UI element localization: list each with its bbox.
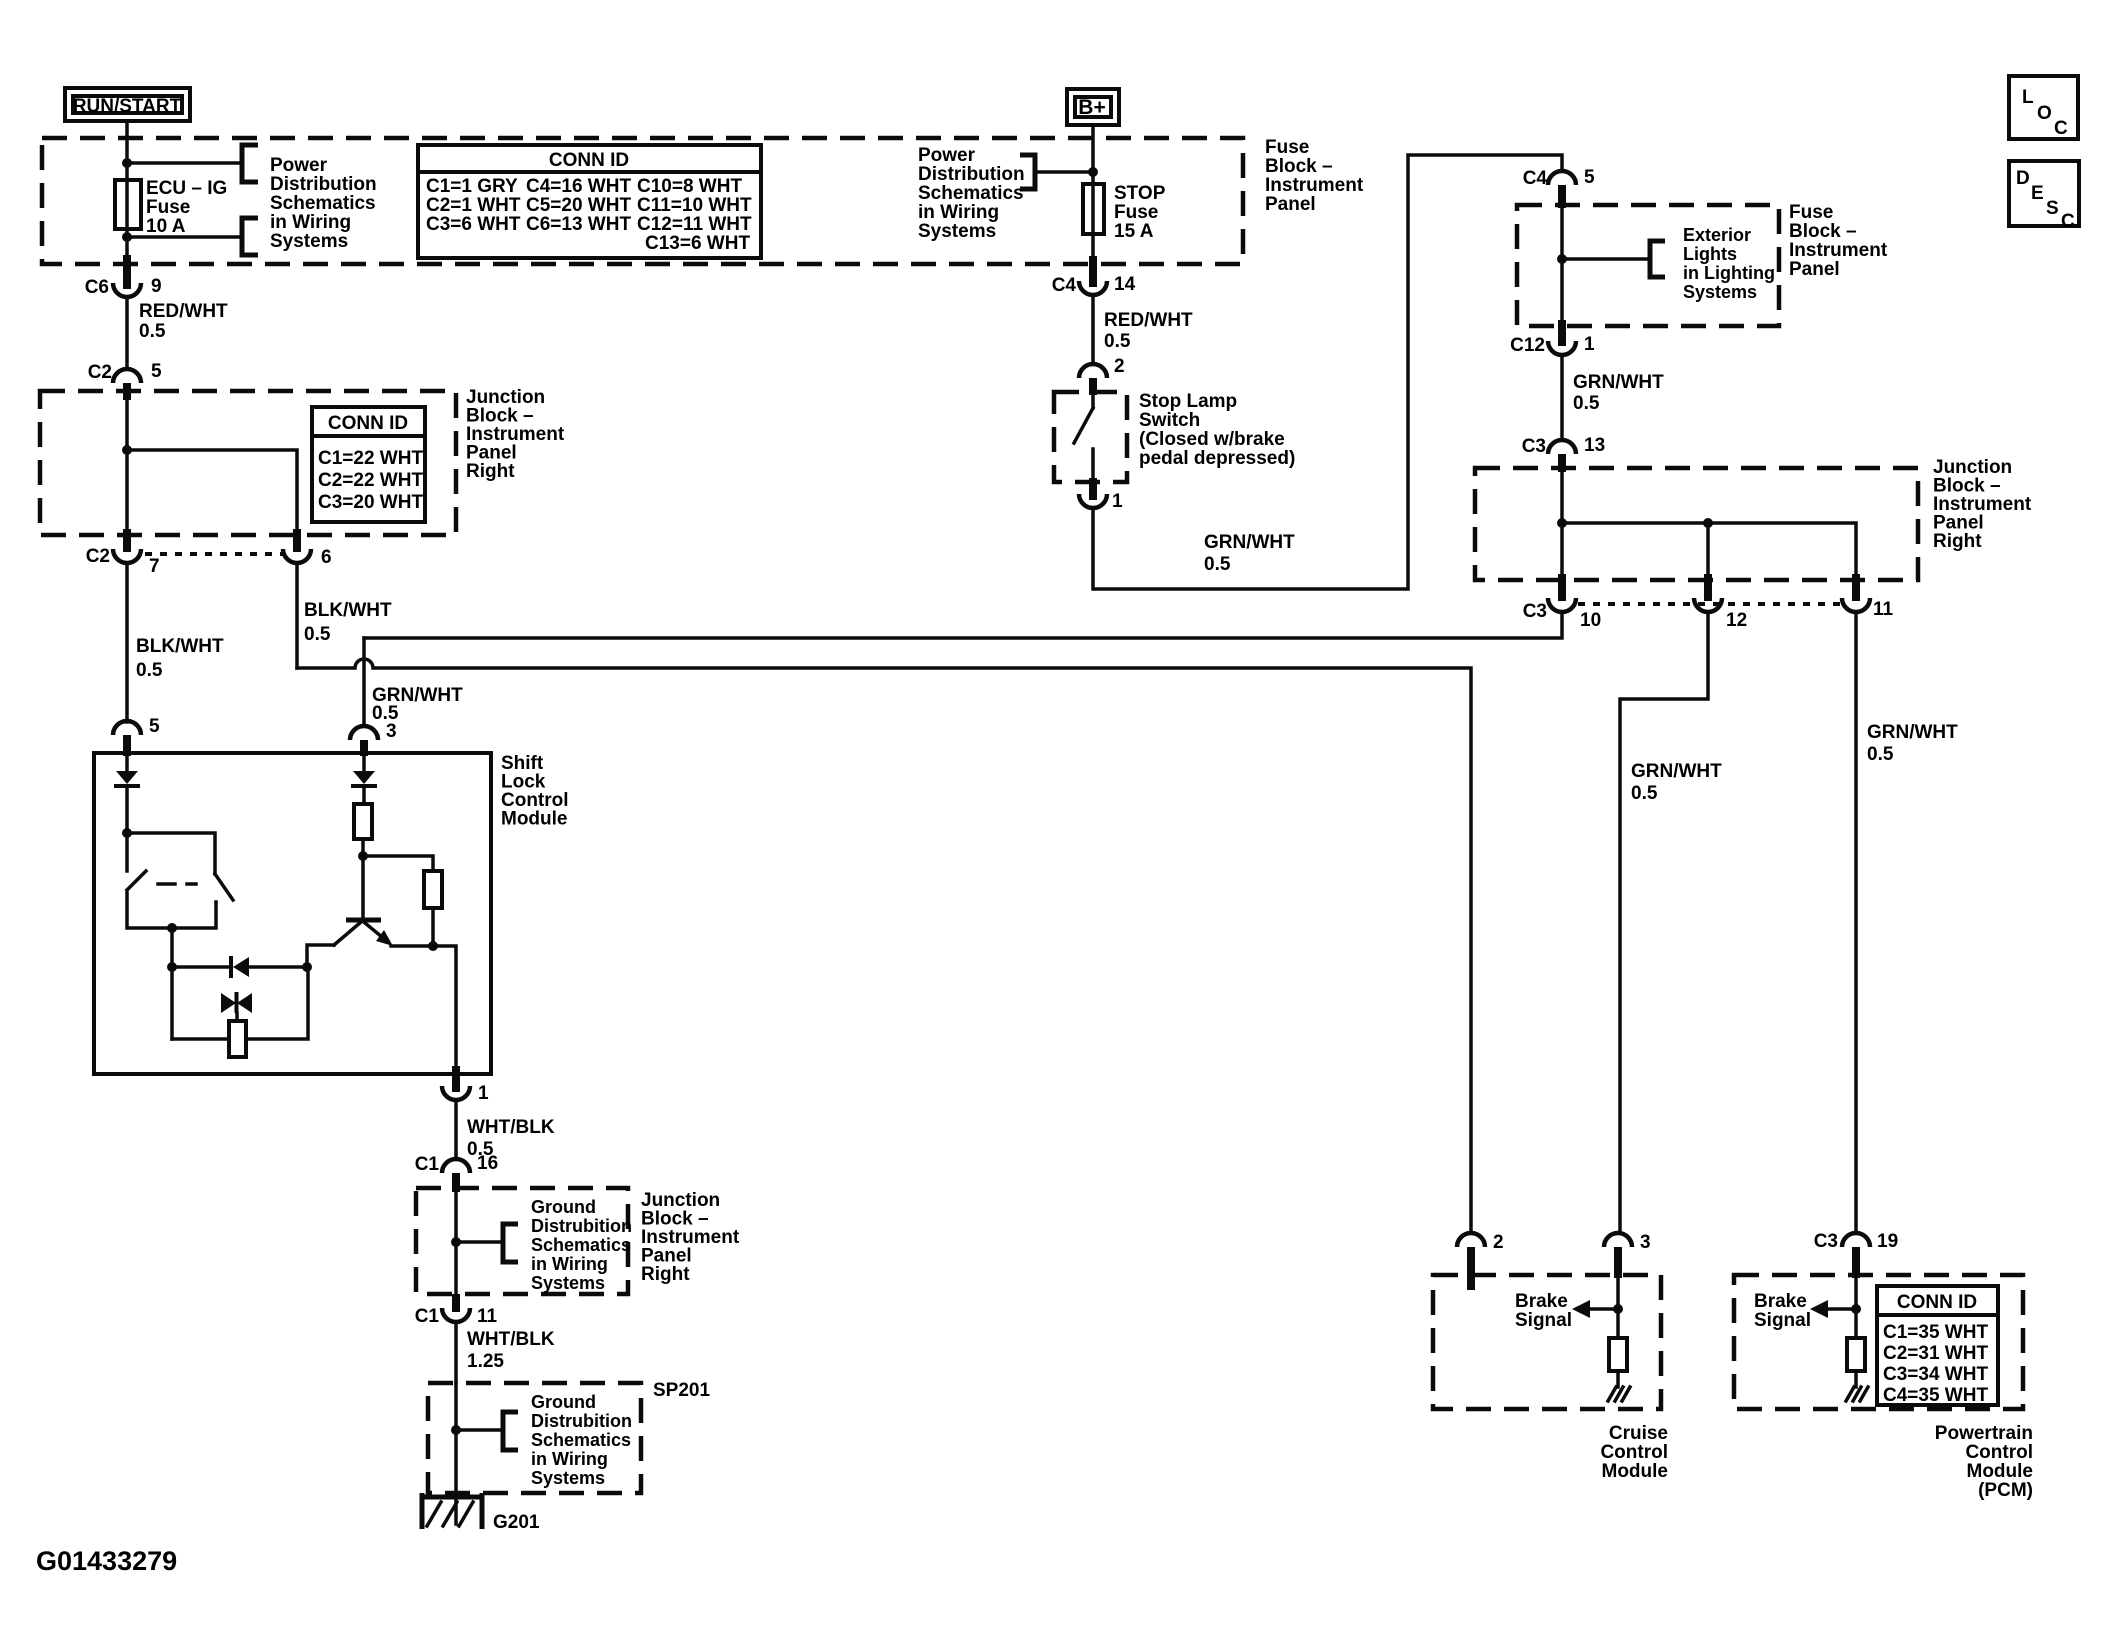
node B+ tap — [1088, 167, 1098, 177]
switch linkage dashes — [158, 882, 196, 886]
wire loop bottom — [172, 967, 308, 1039]
solenoid symbol (butterfly) — [221, 993, 236, 1013]
CONN ID table (junction block) — [312, 407, 425, 522]
svg-text:S: S — [2046, 198, 2059, 219]
svg-text:3: 3 — [386, 721, 397, 742]
wire tap bottom — [127, 235, 240, 239]
fuse block instrument panel right (dashed box) — [1517, 205, 1779, 326]
wire pin19 inside PCM — [1854, 1278, 1858, 1338]
svg-text:2: 2 — [1114, 356, 1125, 377]
wire inside ground box 1 — [454, 1192, 458, 1294]
svg-text:2: 2 — [1493, 1232, 1504, 1253]
svg-text:CONN ID: CONN ID — [549, 150, 629, 171]
connector pin C6-9 — [123, 255, 131, 289]
node A — [358, 851, 368, 861]
connector C1-16 — [442, 1159, 470, 1173]
wire R2 to collector rail — [431, 908, 435, 946]
wire branch pin 12 — [1706, 523, 1710, 580]
svg-text:C10=8 WHTC11=10 WHTC12=11 WHTC: C10=8 WHTC11=10 WHTC12=11 WHTC13=6 WHT — [637, 176, 752, 254]
bracket power distribution top — [242, 145, 258, 182]
connector C3-19 (PCM) — [1842, 1233, 1870, 1247]
node brake signal tap (PCM) — [1851, 1304, 1861, 1314]
wire inside fuse block right — [1560, 208, 1564, 326]
CONN ID table (fuse block) — [418, 145, 761, 258]
node ground tap 1 — [451, 1237, 461, 1247]
wire to resistor R1 — [362, 788, 366, 804]
svg-text:1: 1 — [1584, 334, 1595, 355]
powertrain control module (dashed box) — [1734, 1275, 2023, 1409]
connector pin 3 (cruise) — [1604, 1233, 1632, 1247]
svg-text:C1=22 WHTC2=22 WHTC3=20 WHT: C1=22 WHTC2=22 WHTC3=20 WHT — [318, 448, 423, 513]
wire tap top — [127, 161, 240, 165]
wire branch across — [1562, 523, 1856, 580]
svg-text:BrakeSignal: BrakeSignal — [1515, 1291, 1572, 1331]
wire inside junction block right — [1560, 472, 1564, 580]
connector pin 1 (switch) — [1089, 478, 1097, 500]
svg-text:C1: C1 — [415, 1306, 440, 1327]
wire WHT/BLK 1.25 — [454, 1322, 458, 1383]
connector C12-1 — [1558, 320, 1566, 346]
svg-text:C4=16 WHTC5=20 WHTC6=13 WHT: C4=16 WHTC5=20 WHTC6=13 WHT — [526, 176, 631, 235]
svg-text:9: 9 — [151, 276, 162, 297]
stop lamp switch (dashed box) — [1054, 392, 1127, 482]
svg-text:5: 5 — [151, 361, 162, 382]
connector C4-5 — [1548, 171, 1576, 185]
wire resistor to ground (PCM) — [1854, 1371, 1858, 1387]
svg-text:C3: C3 — [1523, 601, 1547, 622]
node: tap to power distribution (bottom) — [122, 232, 132, 242]
wire WHT/BLK — [454, 1100, 458, 1159]
wire RED/WHT — [125, 297, 129, 367]
svg-text:5: 5 — [149, 716, 160, 737]
ground G201 — [422, 1493, 483, 1529]
wire inside junction block — [125, 399, 129, 535]
dotted connector line C3 — [1578, 602, 1840, 606]
fuse ECU-IG 10A — [115, 180, 141, 229]
svg-text:13: 13 — [1584, 435, 1605, 456]
svg-text:E: E — [2031, 183, 2044, 204]
switch contact top — [1091, 395, 1095, 408]
svg-text:CruiseControlModule: CruiseControlModule — [1600, 1423, 1668, 1482]
wire long run to cruise control (with hop) — [297, 659, 1471, 1232]
node junction tap 1 — [1557, 518, 1567, 528]
splice SP201 (dashed box) — [428, 1383, 641, 1493]
junction block instrument panel right (dashed box, right) — [1475, 468, 1918, 580]
node: tap to power distribution (top) — [122, 158, 132, 168]
svg-text:C2: C2 — [86, 546, 110, 567]
svg-text:C6: C6 — [85, 277, 109, 298]
wire tap to bracket 2 — [456, 1428, 502, 1432]
wire inside SP201 — [454, 1383, 458, 1524]
svg-text:14: 14 — [1114, 274, 1136, 295]
switch blade — [1074, 408, 1093, 443]
svg-text:CONN ID: CONN ID — [1897, 1292, 1977, 1313]
wire BLK/WHT pin7 — [125, 563, 129, 722]
svg-text:BrakeSignal: BrakeSignal — [1754, 1291, 1811, 1331]
bracket power distribution (B+) — [1020, 155, 1035, 189]
location box LOC — [2009, 76, 2078, 139]
base wire — [307, 945, 334, 967]
svg-text:G201: G201 — [493, 1512, 540, 1533]
node loop right / base tap — [302, 962, 312, 972]
switch blade right — [215, 874, 233, 900]
svg-text:D: D — [2016, 168, 2030, 189]
connector pin C2-7 — [123, 529, 131, 552]
wire switch right branch — [127, 833, 215, 874]
svg-text:C1=35 WHTC2=31 WHTC3=34 WHTC4=: C1=35 WHTC2=31 WHTC3=34 WHTC4=35 WHT — [1883, 1322, 1988, 1406]
svg-text:C3: C3 — [1814, 1231, 1838, 1252]
ground distribution junction block (dashed box) — [416, 1188, 628, 1294]
wire down from switch — [170, 928, 174, 1039]
bracket ground distribution 1 — [503, 1224, 518, 1262]
svg-text:C2: C2 — [88, 362, 112, 383]
node junction block tap — [122, 445, 132, 455]
resistor (cruise) — [1609, 1338, 1627, 1371]
wire BLK/WHT pin6 down — [295, 563, 299, 668]
svg-text:1: 1 — [1112, 491, 1123, 512]
diode D1 (left input) — [125, 756, 129, 771]
wire RED/WHT (stop) — [1091, 295, 1095, 364]
cruise control module (dashed box) — [1433, 1275, 1661, 1409]
power tag RUN/START — [65, 88, 190, 121]
node switch top — [122, 828, 132, 838]
wire branch to pin 6 — [127, 450, 297, 535]
svg-text:O: O — [2037, 103, 2052, 124]
svg-text:11: 11 — [477, 1306, 498, 1327]
wire tap to bracket exterior lights — [1562, 257, 1648, 261]
switch blade left — [127, 871, 146, 890]
node switch bottom — [167, 923, 177, 933]
wire node A to resistor R2 — [363, 856, 433, 871]
wire R1 to node A — [361, 839, 365, 918]
svg-text:C: C — [2054, 118, 2068, 139]
svg-text:C3: C3 — [1522, 436, 1546, 457]
wire GRN/WHT from switch to fuse block right — [1093, 155, 1562, 589]
svg-text:B+: B+ — [1078, 96, 1105, 119]
dotted connector line C2 — [145, 552, 283, 556]
ground (PCM) — [1846, 1387, 1868, 1401]
wire resistor to ground (cruise) — [1616, 1371, 1620, 1387]
ground (cruise) — [1608, 1387, 1630, 1401]
connector pin C3-10 — [1558, 574, 1566, 601]
diode D2 (horizontal) — [172, 965, 229, 969]
node ground tap 2 — [451, 1425, 461, 1435]
svg-text:G01433279: G01433279 — [36, 1546, 177, 1576]
node loop left — [167, 962, 177, 972]
connector C1-11 — [452, 1294, 460, 1312]
connector C2-5 — [113, 369, 141, 383]
diode D3 (pin3 input) — [362, 756, 366, 771]
wire tap to bracket 1 — [456, 1240, 502, 1244]
connector pin C4-14 — [1089, 256, 1097, 287]
svg-text:C4: C4 — [1052, 275, 1077, 296]
svg-text:SP201: SP201 — [653, 1380, 710, 1401]
svg-text:10: 10 — [1580, 610, 1601, 631]
bracket exterior lights — [1650, 241, 1665, 277]
wire to switch — [125, 788, 129, 871]
wire pin 12 to cruise pin 3 — [1620, 612, 1708, 1232]
svg-text:C1=1 GRYC2=1 WHTC3=6 WHT: C1=1 GRYC2=1 WHTC3=6 WHT — [426, 176, 521, 235]
svg-text:C1: C1 — [415, 1154, 440, 1175]
emitter rail to output — [391, 946, 456, 1074]
transistor Q1 — [346, 918, 381, 923]
svg-text:CONN ID: CONN ID — [328, 413, 408, 434]
connector pin 2 (switch) — [1079, 364, 1107, 378]
svg-text:C12: C12 — [1510, 335, 1545, 356]
switch bottom U — [127, 893, 216, 928]
resistor R1 — [354, 804, 372, 839]
wire pin 11 to PCM — [1854, 612, 1858, 1232]
svg-text:C: C — [2061, 211, 2075, 232]
resistor R2 — [424, 871, 442, 908]
connector module pin 5 — [113, 721, 141, 735]
power tag B+ — [1067, 89, 1119, 125]
connector module pin 3 — [350, 726, 378, 740]
svg-text:RUN/START: RUN/START — [73, 96, 182, 117]
svg-text:7: 7 — [149, 556, 160, 577]
svg-text:L: L — [2022, 87, 2034, 108]
node brake signal tap (cruise) — [1613, 1304, 1623, 1314]
node junction tap 2 — [1703, 518, 1713, 528]
bracket ground distribution 2 — [503, 1412, 518, 1450]
node emitter/R2 — [428, 941, 438, 951]
bracket power distribution bottom — [242, 218, 258, 255]
brake signal arrow (cruise) — [1584, 1307, 1618, 1311]
resistor R3 (solenoid coil) — [229, 1021, 246, 1057]
node exterior lights tap — [1557, 254, 1567, 264]
wire pin3 inside cruise — [1616, 1278, 1620, 1338]
brake signal arrow (PCM) — [1822, 1307, 1856, 1311]
svg-text:1: 1 — [478, 1083, 489, 1104]
svg-text:6: 6 — [321, 547, 332, 568]
connector C3-13 — [1548, 440, 1576, 454]
location box DESC — [2009, 161, 2079, 232]
resistor (PCM) — [1847, 1338, 1865, 1371]
wire long run junction block C3-10 — [364, 612, 1562, 638]
shift lock control module (solid box) — [94, 753, 491, 1074]
svg-text:5: 5 — [1584, 167, 1595, 188]
svg-text:3: 3 — [1640, 1232, 1651, 1253]
junction block instrument panel right (dashed box) — [40, 391, 456, 535]
connector pin 6 — [293, 529, 301, 552]
wire GRN/WHT down to module pin 3 — [362, 638, 366, 726]
connector pin 11 — [1852, 574, 1860, 601]
wire RUN/START to fuse block — [125, 124, 129, 262]
switch contact bottom — [1091, 449, 1095, 482]
svg-text:19: 19 — [1877, 1231, 1898, 1252]
svg-text:C4: C4 — [1523, 168, 1548, 189]
fuse block instrument panel (dashed box) — [42, 138, 1243, 264]
connector module pin 1 — [452, 1066, 460, 1092]
connector pin 12 — [1704, 574, 1712, 601]
fuse STOP 15A — [1083, 184, 1104, 234]
wire B+ into fuse block — [1091, 125, 1095, 264]
wire tap to bracket — [1035, 170, 1093, 174]
svg-text:11: 11 — [1873, 599, 1894, 620]
svg-text:16: 16 — [477, 1153, 498, 1174]
CONN ID table (PCM) — [1877, 1286, 1998, 1406]
connector pin 2 (cruise) — [1457, 1233, 1485, 1247]
wire GRN/WHT (lights) — [1560, 355, 1564, 440]
svg-text:12: 12 — [1726, 610, 1747, 631]
